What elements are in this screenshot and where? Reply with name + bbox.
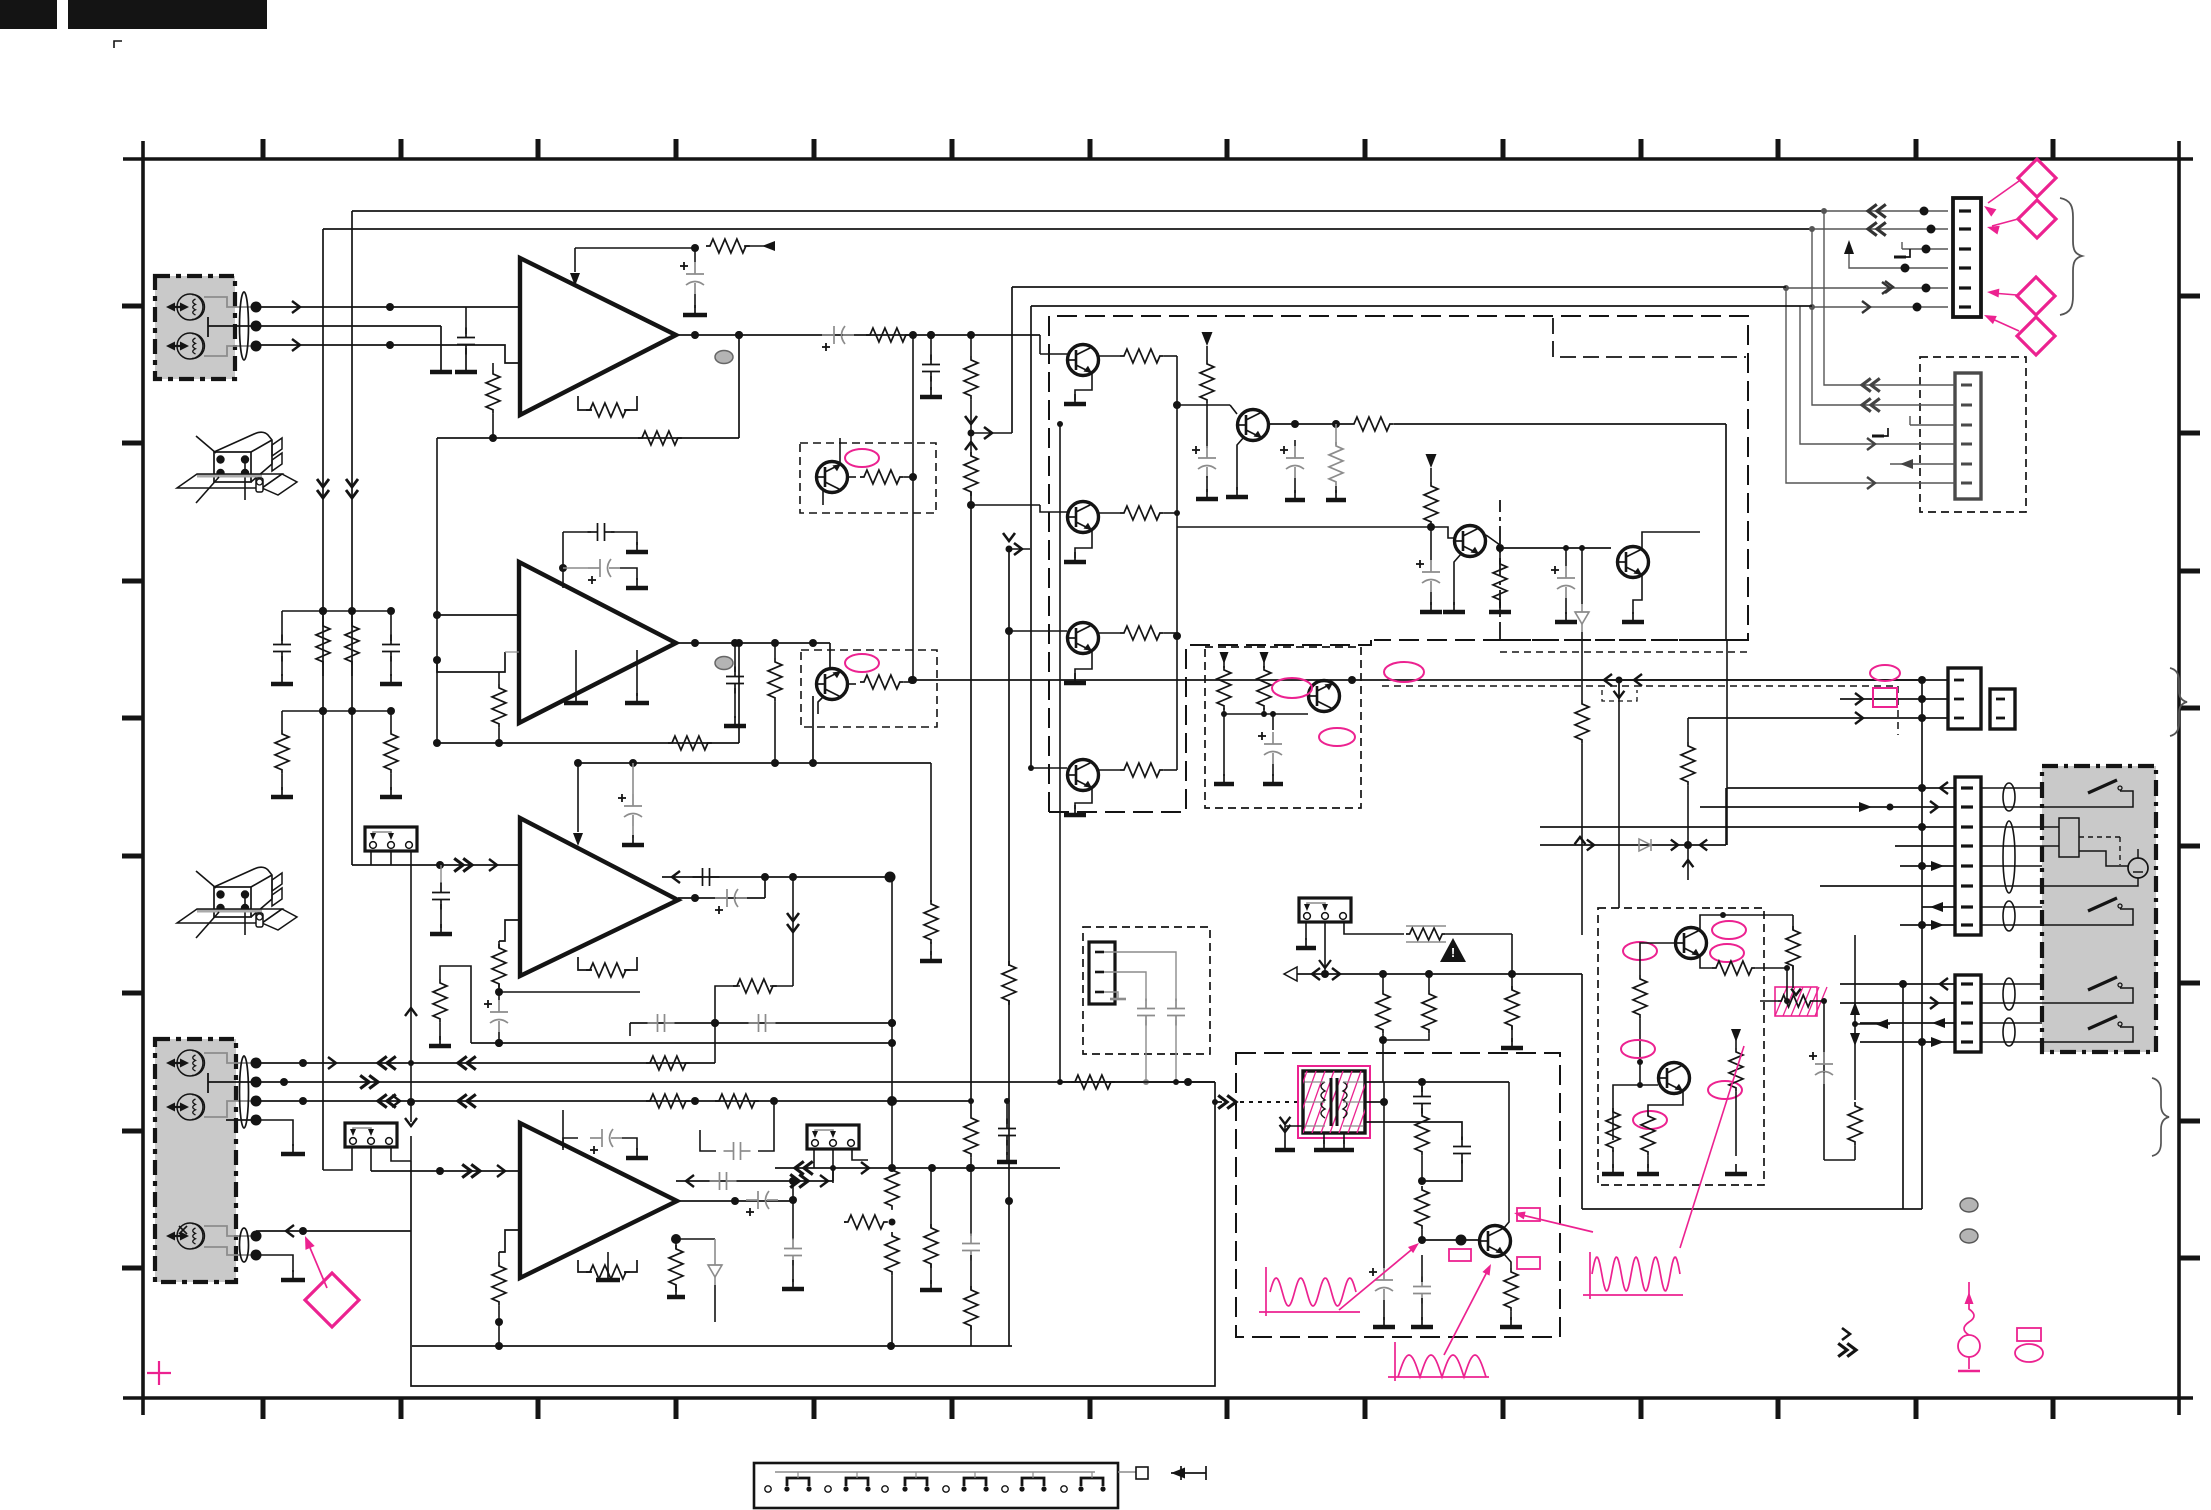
Q9 collector top	[1700, 915, 1723, 930]
U2B output node	[792, 1181, 794, 1240]
cable grommet ellipse	[240, 292, 249, 360]
ladder junction row	[282, 610, 391, 612]
switch S1	[2088, 780, 2117, 793]
magenta arrow d1	[1988, 181, 2019, 203]
vertical bus wire A	[351, 211, 353, 865]
J5 pin3 wire	[1540, 826, 1955, 828]
U2B input wire chevrons	[440, 1170, 520, 1172]
bottom edge connector strip	[754, 1463, 1118, 1508]
Q4 emitter gnd	[1075, 788, 1092, 809]
diode x1582	[1575, 612, 1589, 624]
U1A input shield wire	[256, 325, 441, 327]
Q8 magenta callouts	[1272, 678, 1312, 698]
series resistor R-out	[866, 328, 910, 342]
fine box resistor 1	[1220, 652, 1229, 664]
mute cell B label	[845, 654, 879, 672]
magenta arrow from diamond	[308, 1243, 327, 1288]
U2B output wire	[676, 1200, 793, 1202]
corner registration mark	[114, 41, 122, 48]
Q3 base wire	[1009, 630, 1067, 632]
border frame right	[2177, 141, 2181, 1415]
J6 pin2 wire	[1840, 1002, 1955, 1004]
magenta rect label P7	[1873, 688, 1897, 707]
osc x1422 chain	[1421, 1082, 1423, 1092]
coupling cap C-out	[822, 334, 834, 336]
magenta arrow d4	[1988, 317, 2019, 331]
motor M	[2128, 858, 2148, 878]
U1A top feedback arrow	[574, 248, 576, 272]
Q6 emitter	[1454, 554, 1461, 605]
U1B input wire	[437, 614, 519, 616]
updown arrows x1855	[1854, 935, 1856, 1100]
Q1 base wire	[1039, 335, 1041, 354]
gray ellipse pair	[1960, 1198, 1978, 1212]
U1A gain resistor R-in	[492, 363, 494, 370]
op-amp U2B	[520, 1123, 677, 1278]
wire y640 rail	[1049, 639, 1374, 641]
net wire y1023	[630, 1022, 892, 1024]
vert x1903	[1902, 984, 1904, 1209]
diamond test point 3	[2017, 277, 2055, 315]
junction dots at head cable	[251, 302, 262, 313]
Q5 base	[1206, 440, 1208, 448]
head wiring stubs	[204, 297, 256, 307]
Q7 emitter down	[1633, 575, 1642, 614]
transformer left lead	[1285, 1126, 1303, 1140]
connector J5 (8-pin)	[1955, 777, 1981, 935]
hatched level adjust box	[1775, 987, 1817, 1016]
Q7 cap	[1565, 566, 1567, 578]
osc wire y1122	[1365, 1122, 1462, 1140]
J3 wire 3	[1902, 248, 1948, 250]
net vert x774	[758, 1101, 774, 1151]
res pair x1429	[1428, 974, 1430, 990]
ladder junction row 2	[282, 710, 391, 712]
Q11 collector	[1504, 1082, 1509, 1228]
switching block outline (long dash)	[1049, 316, 1748, 812]
waveform sketch 2	[1394, 1342, 1396, 1381]
J3 wire 1	[1824, 210, 1948, 212]
ladder resistor 2	[351, 611, 353, 622]
mute cell A resistor	[848, 476, 856, 478]
U2B return cap wire	[676, 1180, 833, 1182]
mute cell B box	[801, 650, 937, 727]
Q10 magenta ellipses	[1621, 1040, 1655, 1058]
supply resistor	[1200, 360, 1214, 404]
top rail wire A	[352, 210, 1824, 212]
res pair x1383	[1382, 974, 1384, 990]
crossing marker 2	[1003, 533, 1015, 541]
head symbol C (erase)	[177, 1223, 203, 1249]
divider res x931	[930, 763, 932, 902]
U1A supply decoupling cap	[694, 248, 696, 262]
net wire y1168	[775, 1167, 1060, 1169]
U2A input wire with chevrons	[440, 864, 520, 866]
long dash inner notch	[1553, 318, 1746, 357]
record amp dashed box	[1598, 908, 1764, 1185]
J4 wire 1	[1824, 211, 1868, 385]
title block bar 2	[68, 0, 267, 29]
net wire y1043	[471, 1042, 892, 1044]
Q4 base wire	[1031, 767, 1067, 769]
U2A lower input	[499, 920, 520, 941]
Q10 supply res	[1731, 1029, 1741, 1042]
U1B input resistor	[505, 651, 519, 653]
magenta line from waveform 3	[1680, 1046, 1744, 1248]
connector P9	[1299, 898, 1351, 922]
ladder resistor 4	[390, 711, 392, 730]
U2B feedback under	[578, 1260, 592, 1272]
U1B comp cap 1	[562, 532, 564, 540]
Q10 emitter	[1648, 1091, 1683, 1112]
magenta label rects osc	[1517, 1208, 1540, 1221]
head wire 1	[256, 1062, 715, 1064]
magenta arrow d2	[1992, 219, 2018, 226]
brace right of P7	[2170, 668, 2187, 736]
transistor Q10	[1658, 1063, 1690, 1094]
fine dash box (mute)	[1205, 647, 1361, 808]
transistor Q2	[1067, 502, 1099, 533]
connector P4 (low)	[345, 1123, 397, 1147]
mid supply resistor	[1424, 482, 1438, 526]
magenta arrow to base	[1339, 1246, 1416, 1310]
solid wire x1726	[1725, 424, 1727, 560]
wire y845 diodes	[1540, 844, 1726, 846]
feedback divider net	[792, 877, 794, 986]
op-amp U1B	[519, 562, 676, 723]
diamond test point 4	[2017, 317, 2055, 355]
ladder cap 1	[273, 635, 291, 662]
transistor Q1	[1067, 345, 1099, 376]
head wire 3	[256, 1100, 970, 1102]
transformer hatch	[1285, 1071, 1379, 1133]
transistor Q5 (driver)	[1237, 410, 1269, 441]
U2B lower input	[499, 1230, 520, 1252]
U1B grounds below	[575, 650, 577, 696]
Q10 base wire	[1640, 1062, 1658, 1085]
Q9 emitter res	[1700, 956, 1712, 968]
U1B output caps	[734, 643, 736, 672]
J5 pin6 wire	[1820, 885, 1955, 887]
J4 wire 5	[1890, 463, 1955, 465]
Q10 base lower gnd	[1612, 1150, 1614, 1168]
res x1855 low	[1848, 1102, 1862, 1146]
Q8 emitter resistor	[1300, 703, 1308, 710]
bias osc transformer (hatched)	[1303, 1071, 1365, 1133]
transistor Q9	[1675, 928, 1707, 959]
tape mechanism pictorial 1	[214, 452, 251, 482]
riser x971 mid	[970, 452, 972, 456]
vertical bus wire B	[322, 229, 324, 1170]
J6 pin3 wire	[1860, 1022, 1955, 1024]
cable grommet ellipse 3	[240, 1228, 249, 1262]
Q2 collector resistor	[1099, 512, 1120, 514]
switch S3	[2088, 977, 2117, 990]
J4 wire 2	[1812, 229, 1868, 405]
J6 pin4 wire	[1860, 1041, 1955, 1043]
U1A feedback loop under	[578, 396, 592, 410]
mute transistor Q8	[1308, 681, 1340, 712]
mute cell B transistor	[816, 669, 848, 700]
vertical bus x411	[410, 865, 412, 1122]
transistor Q3	[1067, 623, 1099, 654]
signal crossing arrows	[965, 416, 977, 424]
mute cell A box	[800, 443, 936, 513]
oscillator outline (long dash)	[1236, 1053, 1560, 1337]
Q11 emitter	[1504, 1254, 1511, 1268]
net wire x630 stub	[629, 1023, 631, 1036]
middle aux connector P8	[1990, 689, 2015, 729]
J5 pin4 wire	[1895, 845, 1955, 847]
gray output ellipse U1B	[715, 657, 733, 670]
U1B output wire	[676, 642, 830, 644]
U2B ground below	[607, 1252, 609, 1272]
warning triangle	[1440, 938, 1466, 962]
osc feed elbow	[1215, 1082, 1222, 1102]
vert x1619	[1618, 680, 1620, 908]
U1A output wire	[676, 334, 1040, 336]
connector J4 (gray)	[1955, 373, 1981, 499]
transistor Q6	[1454, 526, 1486, 557]
svg-text:!: !	[1451, 945, 1455, 960]
bias resistor to rail	[706, 239, 750, 253]
link to mute rail	[912, 335, 914, 680]
input filter capacitor	[465, 307, 467, 334]
mid sheet dashed frame	[1382, 686, 1898, 735]
connector P5	[807, 1125, 859, 1149]
vert x1688	[1687, 718, 1689, 742]
U2A supply cap	[632, 763, 634, 794]
upper right net	[1725, 560, 1727, 640]
U1B gain resistor	[498, 672, 500, 684]
Q4 collector resistor	[1099, 769, 1120, 771]
vert drop x1582	[1581, 974, 1583, 1209]
U1A feedback bottom rail	[489, 434, 497, 442]
mute cell B resistor	[848, 683, 856, 685]
head wiring stubs 2	[204, 1053, 256, 1063]
waveform sketch 1	[1265, 1267, 1267, 1316]
transformer interior	[1330, 1078, 1333, 1126]
head wire 3 resistors	[646, 1094, 690, 1108]
J4 wire 4	[1800, 306, 1955, 444]
U2A output wire	[678, 897, 765, 899]
magenta arrow to collector	[1518, 1214, 1593, 1232]
J6 pin1 wire	[1840, 983, 1955, 985]
border frame top	[123, 157, 2193, 161]
cable coils J6	[2003, 978, 2015, 1010]
transistor Q11 (osc)	[1479, 1226, 1511, 1257]
net vert x1012 upper	[1011, 287, 1013, 433]
J5 pin5 wire	[1900, 865, 1955, 867]
magenta diamond bottom	[305, 1273, 359, 1327]
brace right lower	[2152, 1078, 2169, 1156]
connector J6 (4-pin)	[1955, 975, 1981, 1052]
J5 pin2 wire	[1700, 806, 1955, 808]
U2B top cap loop	[562, 1136, 564, 1150]
P7 wire pin1	[1560, 679, 1948, 681]
U1B lower input wire	[437, 652, 505, 672]
U1B feedback bottom rail	[495, 739, 503, 747]
U2B input feed wire	[371, 1170, 440, 1172]
U1B comp cap 2 (pol)	[588, 567, 600, 569]
Q5 emitter	[1237, 437, 1244, 490]
op-amp U1A	[520, 258, 676, 415]
dashed box around J4	[1920, 357, 2026, 512]
head block J2 (gray dash-dot box)	[155, 1039, 236, 1282]
fine box resistor 2	[1260, 652, 1269, 664]
junction dots at head cable 2	[251, 1058, 262, 1069]
Q8 base net	[1224, 713, 1308, 715]
erase head symbol	[177, 294, 203, 320]
switch S2	[2088, 898, 2117, 911]
J5 pin7 wire	[1922, 906, 1955, 908]
J3 wire 5	[1786, 287, 1948, 289]
cap x1007	[1006, 1101, 1008, 1124]
P3 pin wires	[370, 851, 372, 865]
magenta plus mark	[147, 1372, 171, 1374]
Q2 base wire	[971, 504, 1040, 506]
border frame bottom	[123, 1396, 2193, 1400]
border tick marks bottom	[261, 1398, 266, 1419]
J6-switchbox wires	[1981, 983, 2042, 985]
riser x1031	[1030, 306, 1032, 768]
J4 wire 6	[1786, 288, 1955, 483]
head symbol A	[177, 1050, 203, 1076]
U2A top feedback arrow	[577, 763, 579, 832]
U2B comp cap	[563, 1138, 578, 1148]
net caps y1023	[648, 1022, 658, 1024]
magenta arrow d3	[1992, 293, 2017, 295]
dashed box shield (osc input)	[1083, 927, 1210, 1054]
top rail wire B	[323, 228, 1812, 230]
transformer grounds	[1323, 1133, 1325, 1144]
title block bar 1	[0, 0, 57, 29]
diamond test point 2	[2018, 200, 2056, 238]
P7 wire pin2	[1840, 698, 1948, 700]
osc wire y1102	[1365, 1101, 1384, 1103]
erase head return	[256, 1255, 293, 1272]
transistor Q7	[1617, 547, 1649, 578]
head wire 2	[256, 1081, 1215, 1083]
diode to rail	[1579, 545, 1585, 551]
Q7 collector up	[1642, 532, 1700, 549]
J3 wire 6	[1812, 306, 1948, 308]
head wire 5 (erase)	[256, 1230, 411, 1232]
P5 pin wires	[813, 1149, 815, 1168]
osc x1384 chain	[1383, 1082, 1385, 1268]
U2B gain resistor	[498, 1252, 500, 1262]
Q3 emitter gnd	[1075, 651, 1092, 679]
J5 pin1 wire	[1727, 787, 1955, 789]
net vert x931 lower	[930, 1168, 932, 1228]
Q6 collector net	[1486, 535, 1500, 548]
gray output ellipse U1A	[715, 351, 733, 364]
Q9 magenta ellipses	[1712, 921, 1746, 939]
net vert x715	[714, 1023, 716, 1063]
head wire 4 to gnd	[256, 1120, 293, 1146]
border tick marks right	[2179, 294, 2200, 299]
U2B bias cluster	[676, 1238, 715, 1240]
border frame left	[141, 141, 145, 1415]
tape mechanism pictorial 2	[214, 887, 251, 917]
cable grommet ellipse 2	[240, 1056, 249, 1128]
magenta squiggle symbol	[1968, 1282, 1970, 1296]
magenta rect+ellipse legend	[2017, 1328, 2041, 1341]
strip tail	[1118, 1471, 1136, 1473]
vert x1727	[1726, 640, 1728, 845]
ladder cap 2	[382, 635, 400, 662]
Q2 emitter gnd	[1075, 530, 1092, 558]
P9 feed resistor	[1406, 928, 1446, 940]
magenta ellipse label P7	[1870, 665, 1900, 681]
Q6 cap below node	[1430, 527, 1432, 560]
op-amp U2A	[520, 818, 678, 976]
vert x1793 from top	[1760, 914, 1793, 916]
Q1 emitter gnd	[1075, 373, 1092, 400]
vert x1922 long	[1921, 679, 1923, 1209]
vert x1824	[1823, 1001, 1825, 1160]
riser long x437	[436, 438, 438, 743]
wire y287 to J3	[1012, 286, 1786, 288]
U2A feedback under loop	[578, 957, 592, 970]
border tick marks top	[261, 139, 266, 159]
mute cell A label	[845, 449, 879, 467]
magenta arrow to emitter	[1444, 1268, 1489, 1355]
Q9 base chain	[1640, 943, 1675, 960]
ladder resistor 1	[322, 611, 324, 622]
vert x1582b	[1581, 632, 1583, 700]
J4 wire 3	[1910, 424, 1955, 426]
osc feed wire	[1060, 1081, 1215, 1083]
brace right of J3	[2060, 198, 2082, 315]
ground return loop	[411, 1102, 1215, 1386]
transistor Q4	[1067, 760, 1099, 791]
chevrons legend	[1842, 1328, 1850, 1340]
head wire 1 resistor	[646, 1056, 690, 1070]
dotted link to transformer	[1240, 1101, 1302, 1103]
long rail wire y679	[912, 679, 1922, 681]
P6 wires	[1104, 952, 1176, 1001]
U2A return cap wire	[662, 876, 890, 878]
load resistor vert	[970, 335, 972, 356]
connector J3 (top right)	[1953, 198, 1981, 317]
switch S4	[2088, 1016, 2117, 1029]
ladder resistor 3	[281, 711, 283, 730]
vertical 3-pin connector P6	[1089, 942, 1115, 1004]
switch unit (gray dash-dot box)	[2042, 766, 2156, 1052]
decoupling cap at node	[930, 335, 932, 360]
U1A lower input wire	[256, 345, 520, 363]
Q1 collector resistor	[1099, 355, 1120, 357]
driver stage wire	[1177, 527, 1454, 538]
connector P3 (mid)	[365, 827, 417, 851]
rec/play head symbol	[177, 333, 203, 359]
osc control wire y974	[1284, 973, 1582, 975]
P7 wire pin3	[1688, 717, 1948, 719]
diamond test point 1	[2018, 159, 2056, 197]
net vert x1009 lower	[1008, 549, 1010, 966]
shunt res x440	[440, 865, 442, 884]
Q7 base wire	[1563, 545, 1569, 551]
bottom rail y1209	[1582, 1208, 1922, 1210]
Q11 base wire	[1422, 1239, 1479, 1241]
collector bus x1177	[1176, 356, 1178, 770]
border tick marks left	[122, 304, 143, 309]
head block rect	[2059, 818, 2079, 857]
record/play head block J1 (gray dash-dot box)	[155, 276, 235, 379]
waveform sketch 3	[1589, 1252, 1591, 1299]
driver node wire	[1177, 404, 1230, 406]
